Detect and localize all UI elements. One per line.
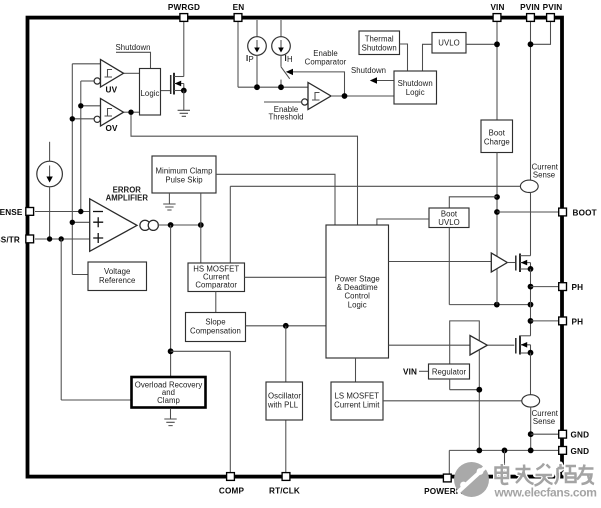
wire UVLO to VIN xyxy=(466,43,497,45)
wire PH node rail xyxy=(530,269,532,336)
wire OV output to Logic xyxy=(124,111,140,113)
wire OV top input xyxy=(81,105,101,107)
pin POWERPAD xyxy=(424,474,473,496)
wire current sense to HS comparator xyxy=(229,186,231,263)
wire VSENSE input xyxy=(35,211,90,213)
svg-text:Shutdown: Shutdown xyxy=(398,79,433,88)
svg-text:SS/TR: SS/TR xyxy=(0,235,20,244)
svg-text:Oscillator: Oscillator xyxy=(268,392,301,401)
block Oscillator with PLL xyxy=(266,382,303,420)
pin VSENSE xyxy=(0,208,34,217)
svg-text:PVIN: PVIN xyxy=(543,3,563,12)
wire boot UVLO to PH rail xyxy=(449,228,530,305)
pin PVIN 2 xyxy=(543,3,563,22)
wire BOOT pin xyxy=(497,211,559,213)
svg-text:Charge: Charge xyxy=(484,137,510,146)
wire LS driver bottom to ground xyxy=(478,350,480,451)
svg-text:Compensation: Compensation xyxy=(190,327,241,336)
svg-text:www.elecfans.com: www.elecfans.com xyxy=(494,486,597,500)
svg-text:with PLL: with PLL xyxy=(267,401,299,410)
wire min clamp ground stem xyxy=(168,193,170,204)
wire PVIN rail xyxy=(530,21,532,180)
wire PWRGD drain riser xyxy=(183,21,185,77)
current source Ip xyxy=(246,20,266,87)
pin GND 2 xyxy=(559,447,589,457)
node SS junction 2 xyxy=(59,236,64,241)
wire EN pin drop xyxy=(238,21,308,87)
wire ground rail xyxy=(449,449,558,451)
svg-text:LS MOSFET: LS MOSFET xyxy=(334,392,379,401)
block Voltage Reference xyxy=(88,262,147,291)
wire PVIN2 link xyxy=(531,21,551,44)
block Boot Charge xyxy=(481,120,513,153)
amplifier HS gate driver xyxy=(491,253,507,272)
svg-text:Sense: Sense xyxy=(533,417,555,426)
wire SS/TR input xyxy=(35,238,90,240)
svg-text:VSENSE: VSENSE xyxy=(0,208,23,217)
svg-text:Slope: Slope xyxy=(205,318,225,327)
svg-text:Logic: Logic xyxy=(406,88,425,97)
op-amp error amplifier xyxy=(90,199,159,252)
svg-text:Boot: Boot xyxy=(489,128,506,137)
wire oscillator to RT/CLK pin xyxy=(285,420,287,472)
svg-text:Current Limit: Current Limit xyxy=(334,401,380,410)
svg-text:GND: GND xyxy=(571,447,590,456)
pin COMP xyxy=(219,473,245,496)
svg-text:& Deadtime: & Deadtime xyxy=(337,283,378,292)
wire VIN rail xyxy=(496,21,498,120)
pin PVIN 1 xyxy=(520,3,540,22)
transistor LS MOSFET xyxy=(516,336,534,356)
wire UV bubble input xyxy=(81,80,94,82)
wire EA output xyxy=(158,224,201,226)
svg-text:Threshold: Threshold xyxy=(268,112,303,121)
wire HS driver bottom to PH rail xyxy=(496,269,498,305)
block Logic xyxy=(140,69,161,116)
current sense LS xyxy=(522,395,540,407)
wire COMP branch to pin xyxy=(171,351,231,472)
wire boot UVLO to power stage xyxy=(377,219,429,225)
wire thermal shutdown to logic xyxy=(400,44,408,71)
svg-text:Logic: Logic xyxy=(141,89,160,98)
wire PH pin 1 xyxy=(531,286,559,288)
node vsense-OV junction xyxy=(78,103,83,108)
node boot junction 1 xyxy=(494,194,500,200)
wire LS source down xyxy=(530,353,532,395)
svg-text:EN: EN xyxy=(233,3,245,12)
wire reference vertical xyxy=(72,64,88,275)
node ground rail junction 2 xyxy=(502,448,508,454)
wire HS comparator to slope comp xyxy=(215,292,217,313)
svg-text:AMPLIFIER: AMPLIFIER xyxy=(106,194,149,203)
node GND junction 1 xyxy=(528,431,534,437)
wire SS to overload recovery xyxy=(61,239,131,400)
node OV output junction xyxy=(128,110,133,115)
node boot junction 2 xyxy=(494,209,500,215)
svg-text:Power Stage: Power Stage xyxy=(335,274,380,283)
block Regulator xyxy=(429,364,470,379)
wire slope comp output xyxy=(246,325,327,327)
pin PH 1 xyxy=(559,283,583,292)
svg-text:Control: Control xyxy=(344,292,370,301)
svg-text:PVIN: PVIN xyxy=(520,3,540,12)
node PH rail junction 1 xyxy=(494,302,500,308)
pin PWRGD xyxy=(168,3,200,22)
wire reference to EA xyxy=(72,221,89,223)
wire regulator return xyxy=(450,379,480,390)
svg-text:PH: PH xyxy=(572,317,584,326)
label Current Sense (HS) xyxy=(532,163,559,180)
node PH junction 1 xyxy=(528,284,534,290)
wire shutdown arrow xyxy=(370,77,394,83)
svg-text:OV: OV xyxy=(106,124,119,133)
node PVIN junction xyxy=(528,41,534,47)
block Overload Recovery and Clamp xyxy=(132,377,206,408)
wire UVLO to shutdown logic xyxy=(423,44,433,71)
pin RT/CLK xyxy=(269,473,300,496)
wire OV output to power stage xyxy=(131,112,358,225)
node Ip junction xyxy=(254,84,260,90)
svg-text:RT/CLK: RT/CLK xyxy=(269,486,300,495)
svg-text:GND: GND xyxy=(571,431,590,440)
label Shutdown (arrow) xyxy=(351,66,386,75)
wire HS comparator output xyxy=(245,276,327,278)
block Boot UVLO xyxy=(429,208,469,228)
wire COMP node down xyxy=(170,225,172,377)
svg-text:Minimum Clamp: Minimum Clamp xyxy=(156,167,214,176)
ground (PWRGD) xyxy=(178,110,190,116)
node ref-OV junction xyxy=(70,116,75,121)
wire powerpad riser xyxy=(448,450,450,474)
svg-text:Comparator: Comparator xyxy=(195,281,237,290)
block Minimum Clamp Pulse Skip xyxy=(152,156,216,193)
svg-text:PH: PH xyxy=(572,283,584,292)
wire UV top input xyxy=(72,63,100,65)
wire HS current sense signal xyxy=(230,185,520,187)
node PH junction 2 xyxy=(528,318,534,324)
svg-text:PWRGD: PWRGD xyxy=(168,3,200,12)
pin EN xyxy=(233,3,245,22)
svg-text:Thermal: Thermal xyxy=(365,34,394,43)
current sense HS xyxy=(520,180,538,192)
wire Logic to PWRGD gate xyxy=(161,90,171,92)
wire min clamp bottom to HS comparator xyxy=(200,193,202,263)
node enable output junction xyxy=(342,93,348,99)
block HS MOSFET Current Comparator xyxy=(188,263,245,292)
node ground rail junction 3 xyxy=(528,448,534,454)
node slope-osc junction xyxy=(283,323,289,329)
node min clamp junction xyxy=(198,222,204,228)
wire GND pin 1 xyxy=(531,433,558,435)
current source SS xyxy=(37,142,63,239)
svg-text:COMP: COMP xyxy=(219,486,245,495)
block LS MOSFET Current Limit xyxy=(331,382,383,420)
node PH rail junction 2 xyxy=(528,302,534,308)
ground (min clamp) xyxy=(163,204,175,210)
wire PH pin 2 xyxy=(531,320,559,322)
comparator OV xyxy=(94,99,123,134)
label Enable Threshold xyxy=(268,105,303,122)
pin SS/TR xyxy=(0,235,34,244)
wire enable threshold input xyxy=(264,101,302,103)
wire ground rail to pad xyxy=(504,450,506,474)
WATERMARK xyxy=(454,462,597,500)
svg-text:VIN: VIN xyxy=(490,3,504,12)
svg-text:UV: UV xyxy=(106,86,118,95)
svg-text:Comparator: Comparator xyxy=(305,58,347,67)
svg-text:Voltage: Voltage xyxy=(104,267,130,276)
wire HS driver input xyxy=(389,261,492,263)
wire slope to oscillator xyxy=(285,326,287,382)
pin VIN xyxy=(490,3,504,22)
svg-text:Shutdown: Shutdown xyxy=(115,43,150,52)
label ERROR AMPLIFIER xyxy=(106,186,149,203)
wire power stage to LS limit xyxy=(355,358,357,382)
label Current Sense (LS) xyxy=(532,409,559,426)
block Shutdown Logic xyxy=(394,71,437,104)
svg-text:Clamp: Clamp xyxy=(157,396,180,405)
wire VIN dash to regulator xyxy=(419,370,429,372)
svg-text:Shutdown: Shutdown xyxy=(362,43,397,52)
watermark chinese text halo xyxy=(496,464,595,486)
node ref-EA junction xyxy=(70,220,75,225)
current source Ih xyxy=(272,20,293,64)
node ground rail junction 1 xyxy=(476,448,482,454)
svg-text:Logic: Logic xyxy=(348,300,367,309)
svg-text:UVLO: UVLO xyxy=(438,218,459,227)
block Thermal Shutdown xyxy=(359,31,400,55)
switch (enable hysteresis) xyxy=(281,55,290,87)
node SS junction 1 xyxy=(47,236,52,241)
wire min clamp to power stage xyxy=(216,174,335,225)
transistor HS MOSFET xyxy=(516,254,534,273)
wire UV output xyxy=(124,72,140,74)
svg-text:Reference: Reference xyxy=(99,276,135,285)
wire LS driver input xyxy=(389,344,471,346)
svg-text:Regulator: Regulator xyxy=(432,368,467,377)
wire vsense vertical xyxy=(80,81,82,212)
wire PVIN below sense xyxy=(530,193,532,256)
svg-text:BOOT: BOOT xyxy=(573,209,597,218)
wire LS limit output xyxy=(383,400,522,402)
comparator UV xyxy=(94,60,123,95)
comparator enable xyxy=(302,83,331,110)
block Power Stage and Deadtime Control Logic xyxy=(326,225,389,358)
node VIN-UVLO junction xyxy=(494,41,500,47)
node Ih switch junction xyxy=(278,84,284,90)
node vsense junction xyxy=(78,209,83,214)
svg-text:H: H xyxy=(287,55,293,64)
block UVLO xyxy=(432,33,466,54)
svg-text:Shutdown: Shutdown xyxy=(351,66,386,75)
transistor PWRGD MOSFET xyxy=(171,73,187,110)
block Slope Compensation xyxy=(186,313,246,342)
svg-text:Pulse Skip: Pulse Skip xyxy=(165,176,203,185)
node regulator return junction xyxy=(476,387,482,393)
svg-text:VIN: VIN xyxy=(403,367,417,376)
node COMP branch junction xyxy=(168,348,174,354)
wire enable comparator output xyxy=(331,95,394,97)
wire below LS sense xyxy=(530,407,532,450)
watermark logo xyxy=(454,462,489,497)
svg-text:UVLO: UVLO xyxy=(438,39,459,48)
watermark chinese text xyxy=(496,464,595,486)
svg-text:P: P xyxy=(249,55,254,64)
pin PH 2 xyxy=(559,317,583,326)
wire regulator to LS driver supply xyxy=(450,321,480,364)
wire boot rail xyxy=(496,153,498,257)
label Shutdown (PWRGD logic) xyxy=(115,43,150,52)
svg-text:Sense: Sense xyxy=(533,171,555,180)
wire overload ground stem xyxy=(170,408,172,419)
wire boot to boot UVLO xyxy=(449,197,497,208)
wire HS gate xyxy=(507,262,515,264)
wire OV bubble input xyxy=(72,118,94,120)
node COMP junction xyxy=(168,222,174,228)
pin BOOT xyxy=(559,208,597,217)
ground (overload) xyxy=(164,419,176,426)
wire Shutdown underline to Logic xyxy=(116,52,151,68)
label VIN (regulator) xyxy=(403,367,417,376)
wire LS gate xyxy=(487,344,514,346)
pin GND 1 xyxy=(559,430,589,439)
label Enable Comparator xyxy=(305,49,347,67)
wire enable comparator feedback xyxy=(286,69,345,96)
amplifier LS gate driver xyxy=(470,336,487,356)
watermark url xyxy=(494,486,597,500)
